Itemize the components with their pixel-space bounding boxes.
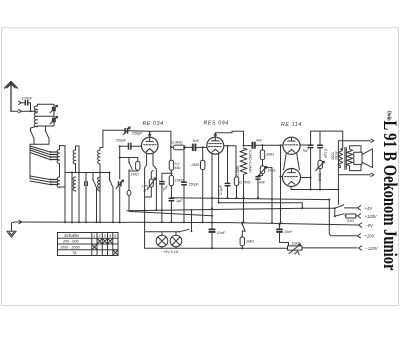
svg-text:+4V: +4V bbox=[365, 206, 374, 211]
svg-text:1MΩ: 1MΩ bbox=[246, 240, 254, 244]
switch +4V bbox=[334, 207, 336, 209]
svg-text:100pF: 100pF bbox=[22, 97, 33, 101]
tube RE034 bbox=[141, 137, 158, 154]
switch S5 bbox=[242, 223, 244, 225]
coil L4 hookup bbox=[76, 146, 80, 173]
vertical coil return wires bbox=[65, 146, 120, 223]
wire tap fan upper bbox=[30, 146, 50, 160]
terminal +4V bbox=[358, 206, 361, 210]
speaker wires with jacks bbox=[338, 141, 370, 175]
wire branch grid leak bbox=[120, 157, 138, 159]
tube RE114 lower bbox=[283, 169, 301, 187]
capacitor 100pF bbox=[25, 100, 27, 105]
transformer secondary bbox=[347, 149, 353, 168]
wire coil to switch 2 bbox=[45, 126, 47, 131]
svg-text:0,1µF: 0,1µF bbox=[219, 185, 223, 195]
junction dots filament bus bbox=[161, 209, 163, 211]
resistor 51 ohm bbox=[345, 215, 346, 217]
svg-text:0,2MΩ 0,2MΩ: 0,2MΩ 0,2MΩ bbox=[248, 150, 252, 173]
coil L6 winding bbox=[98, 150, 100, 164]
svg-text:+120V: +120V bbox=[365, 214, 378, 219]
svg-text:2MΩ: 2MΩ bbox=[190, 163, 199, 167]
wire wiper tap bbox=[265, 168, 272, 223]
trimmer capacitor T1 bbox=[53, 107, 55, 111]
earth jack bbox=[19, 220, 22, 223]
svg-text:10kΩ: 10kΩ bbox=[292, 242, 301, 246]
svg-text:6nF: 6nF bbox=[193, 139, 200, 143]
antenna coil L1 winding bbox=[34, 104, 37, 126]
switch S6 bbox=[128, 161, 130, 163]
antenna jack A1 bbox=[18, 110, 21, 113]
tube RES094 bbox=[207, 137, 224, 154]
potentiometer 10k TA bbox=[288, 246, 303, 250]
transformer primary bbox=[338, 147, 342, 168]
coil L2 tapped winding bbox=[57, 150, 59, 164]
tube filament stem bbox=[290, 186, 292, 189]
wire top cap to node bbox=[150, 131, 171, 147]
svg-text:RE 034: RE 034 bbox=[143, 121, 164, 127]
resistor chain 0.2M zigzag bbox=[240, 148, 247, 222]
svg-text:4nF: 4nF bbox=[259, 181, 266, 185]
svg-text:4: 4 bbox=[109, 234, 111, 238]
svg-text:7nF: 7nF bbox=[302, 149, 309, 153]
antenna jack A2 bbox=[18, 101, 21, 104]
wire bus C bbox=[219, 203, 302, 209]
potentiometer 175 ohm bbox=[149, 179, 153, 187]
svg-text:MΩ: MΩ bbox=[175, 166, 181, 170]
svg-text:1µF: 1µF bbox=[176, 199, 183, 203]
wire switch join bbox=[30, 139, 49, 153]
switch +120V bbox=[334, 208, 336, 216]
anode connector lower tube bbox=[301, 177, 311, 179]
wire ~120V run bbox=[202, 247, 357, 249]
transformer core bbox=[345, 148, 346, 170]
coil L6 hookup bbox=[100, 130, 103, 150]
svg-text:250pF: 250pF bbox=[131, 132, 143, 136]
wire bus B bbox=[171, 198, 329, 200]
grid wire vertical bbox=[119, 146, 121, 179]
coil L5 winding bbox=[73, 177, 75, 191]
svg-text:200 - 600: 200 - 600 bbox=[62, 240, 80, 244]
wire to lower tap fan bbox=[30, 153, 50, 185]
anode rail bbox=[311, 131, 343, 146]
X marks bbox=[98, 239, 113, 243]
wire antenna to jack bbox=[11, 110, 18, 112]
capacitor 150pF bbox=[181, 182, 187, 184]
svg-text:+20V: +20V bbox=[365, 234, 376, 239]
terminal ~120V bbox=[359, 246, 362, 250]
wire +20V bbox=[329, 200, 357, 236]
capacitor 1uF lower bbox=[169, 198, 175, 200]
coil L7 winding bbox=[98, 177, 100, 191]
terminal +120V bbox=[358, 214, 361, 218]
wire vertical with 150pF bbox=[183, 147, 185, 222]
anode connector upper tube bbox=[300, 144, 311, 146]
fuse bbox=[127, 190, 131, 195]
terminal -0V bbox=[359, 223, 362, 227]
svg-text:Ω: Ω bbox=[143, 188, 146, 192]
svg-text:8750: 8750 bbox=[334, 152, 338, 161]
capacitor 1uF bbox=[159, 182, 165, 184]
svg-text:0,2MΩ: 0,2MΩ bbox=[236, 165, 240, 176]
svg-text:RES 094: RES 094 bbox=[204, 121, 229, 127]
switch S1 bbox=[30, 130, 32, 132]
resistor 1M bottom bbox=[240, 237, 244, 246]
variable resistor 50k tone bbox=[318, 160, 322, 168]
ground bus wire bbox=[15, 222, 359, 225]
capacitor 10nF bbox=[279, 225, 281, 229]
junction dots ground bus extra bbox=[211, 222, 213, 224]
svg-text:1000 - 2000: 1000 - 2000 bbox=[60, 245, 81, 249]
lamp branch wires bbox=[145, 222, 202, 248]
switch S4 bbox=[109, 179, 111, 181]
capacitor 0.1uF bbox=[227, 146, 229, 184]
variable capacitor trimmer bbox=[119, 181, 121, 186]
svg-text:1: 1 bbox=[93, 234, 95, 238]
resistor 1M grid bbox=[136, 161, 140, 170]
transformer side wire bbox=[338, 141, 339, 205]
secondary hookup bbox=[350, 146, 361, 171]
svg-text:Schalter: Schalter bbox=[64, 233, 80, 238]
resistor 10k bbox=[169, 176, 173, 186]
anode side wire bbox=[224, 146, 236, 177]
svg-text:1MΩ: 1MΩ bbox=[267, 168, 275, 172]
jack TA bbox=[295, 251, 299, 254]
capacitor 4nF coupling bbox=[244, 145, 252, 147]
grid feed lower tube bbox=[281, 145, 283, 223]
coil taps upper bbox=[50, 152, 57, 160]
junction bbox=[30, 110, 32, 112]
variable resistor 1M bbox=[262, 160, 264, 166]
coil box outline bbox=[38, 104, 55, 126]
anode top wire bbox=[215, 131, 243, 145]
parallel connection wires bbox=[284, 153, 300, 170]
table Schalter bbox=[58, 233, 119, 256]
svg-text:51Ω: 51Ω bbox=[347, 219, 354, 223]
coil mid tap bbox=[38, 115, 55, 117]
svg-text:–120V: –120V bbox=[365, 246, 379, 251]
capacitor 0.1uF output bbox=[319, 131, 321, 145]
trimmer capacitor T2 bbox=[53, 118, 55, 123]
svg-text:0,7MΩ: 0,7MΩ bbox=[239, 181, 250, 185]
speaker bbox=[354, 152, 362, 164]
svg-text:0,1µF: 0,1µF bbox=[324, 149, 328, 159]
svg-text:+4V 0,1A: +4V 0,1A bbox=[163, 250, 179, 254]
svg-text:250pF: 250pF bbox=[115, 139, 127, 143]
switch lamp bbox=[179, 231, 181, 233]
tube legs bbox=[145, 153, 157, 222]
tube legs bbox=[212, 154, 219, 230]
antenna bbox=[5, 82, 18, 112]
svg-text:L 91 B Oekonom Junior: L 91 B Oekonom Junior bbox=[379, 121, 400, 271]
wire mid horizontal bbox=[65, 172, 110, 174]
svg-text:2: 2 bbox=[98, 234, 101, 238]
svg-text:–0V: –0V bbox=[365, 223, 375, 228]
resistor 1M bbox=[262, 145, 264, 150]
resistor 2M grid leak bbox=[202, 147, 204, 160]
variable capacitor 250pF tuning bbox=[103, 129, 124, 131]
svg-text:7350: 7350 bbox=[330, 152, 334, 161]
capacitor 7nF bbox=[310, 131, 312, 145]
capacitor padding bbox=[85, 181, 87, 186]
tube RE114 upper bbox=[283, 137, 300, 154]
switch S3 bbox=[92, 179, 94, 181]
svg-text:1MΩ: 1MΩ bbox=[131, 173, 139, 177]
svg-text:0,3MΩ: 0,3MΩ bbox=[172, 141, 183, 145]
svg-text:RE 114: RE 114 bbox=[281, 122, 302, 128]
capacitor 0.1uF bottom bbox=[209, 229, 216, 232]
terminal +20V bbox=[358, 234, 361, 238]
svg-text:50kΩ: 50kΩ bbox=[318, 173, 322, 182]
wire y189.5 bbox=[291, 189, 338, 191]
resistor 0.2M bbox=[170, 147, 172, 160]
svg-text:4nF: 4nF bbox=[256, 138, 263, 142]
wire jack to coil bbox=[22, 110, 38, 112]
svg-text:TA: TA bbox=[72, 251, 77, 255]
lamp 1 bbox=[156, 235, 168, 247]
coil L4 winding bbox=[73, 150, 75, 164]
coil taps lower bbox=[50, 180, 57, 185]
svg-text:10nF: 10nF bbox=[284, 230, 293, 234]
wire coil to switch 1 bbox=[31, 126, 38, 131]
capacitor 250pF grid bbox=[120, 145, 128, 147]
svg-text:10nF: 10nF bbox=[217, 231, 226, 235]
wire to 1uF bbox=[162, 173, 172, 181]
svg-text:150pF: 150pF bbox=[188, 182, 199, 186]
coil L3 winding lower bbox=[57, 177, 65, 188]
filament bus wire bbox=[127, 208, 335, 210]
capacitor 4nF lower bbox=[258, 174, 263, 177]
svg-text:Owin: Owin bbox=[386, 111, 392, 121]
svg-text:1MΩ: 1MΩ bbox=[266, 153, 274, 157]
switch S2 bbox=[45, 130, 47, 132]
resistor 0.7M bbox=[234, 177, 238, 186]
coil L2 outline bbox=[60, 146, 66, 177]
lamp 2 bbox=[170, 235, 182, 247]
ground bbox=[7, 222, 16, 237]
